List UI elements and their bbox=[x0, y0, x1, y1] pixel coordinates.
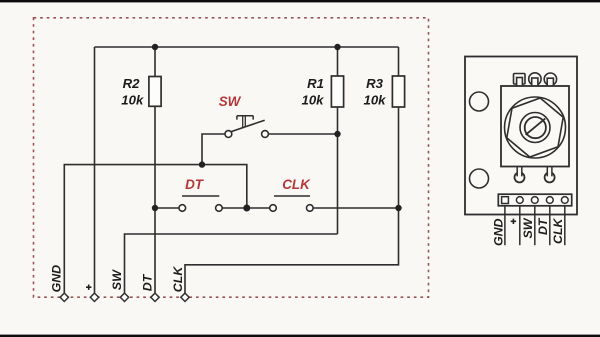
pushbutton SW bbox=[225, 116, 268, 138]
svg-text:10k: 10k bbox=[363, 93, 386, 108]
svg-text:10k: 10k bbox=[121, 93, 144, 108]
svg-text:R3: R3 bbox=[366, 76, 384, 91]
label R1 value bbox=[301, 76, 324, 108]
wire R1 bottom column bbox=[337, 107, 339, 234]
wire R2 top stub bbox=[154, 47, 156, 77]
module wire SW bbox=[534, 206, 536, 245]
svg-text:GND: GND bbox=[50, 265, 64, 293]
encoder shaft slot line bbox=[526, 119, 546, 135]
module wire + bbox=[519, 206, 521, 245]
encoder pin C (top circle) bbox=[544, 73, 556, 87]
wire row segment B bbox=[222, 207, 269, 209]
svg-text:SW: SW bbox=[521, 217, 535, 238]
module mounting hole bottom bbox=[470, 169, 489, 188]
encoder pin A (top square) bbox=[514, 74, 526, 87]
wire row segment A bbox=[155, 207, 179, 209]
wire R1 top stub bbox=[337, 47, 339, 76]
module boundary KY-040 (red dashed) bbox=[34, 18, 429, 297]
wire row segment C bbox=[313, 207, 398, 209]
module mounting hole top bbox=[470, 92, 489, 111]
svg-text:DT: DT bbox=[141, 273, 155, 291]
terminal CLK bbox=[181, 293, 189, 301]
wire R3 to CLK terminal bbox=[185, 208, 399, 293]
module wire CLK bbox=[564, 206, 566, 245]
label R2 value bbox=[121, 76, 144, 108]
module pin label + bbox=[511, 219, 516, 224]
encoder outer circle bbox=[505, 97, 566, 158]
pin label + (left) bbox=[86, 285, 91, 290]
encoder nut hexagon bbox=[504, 93, 566, 161]
module pin header bbox=[498, 194, 571, 206]
junction row common bbox=[243, 205, 250, 212]
junction row DT left bbox=[152, 205, 158, 211]
svg-text:10k: 10k bbox=[301, 93, 324, 108]
encoder shaft circle bbox=[520, 113, 550, 143]
resistor R2 bbox=[149, 77, 161, 107]
junction row R3 bbox=[395, 205, 401, 211]
label R3 value bbox=[363, 76, 386, 108]
encoder bottom tab left bbox=[515, 167, 525, 183]
terminal DT bbox=[151, 293, 159, 301]
svg-text:CLK: CLK bbox=[282, 177, 311, 192]
wire R3 top stub bbox=[398, 47, 400, 76]
header pad + bbox=[516, 197, 523, 204]
svg-text:CLK: CLK bbox=[551, 217, 565, 244]
rotary contact CLK (circles and bar) bbox=[270, 196, 313, 211]
encoder shaft slot circle bbox=[525, 117, 546, 138]
KY-040 module PCB bbox=[465, 57, 577, 215]
wire R1 to SW terminal bbox=[125, 234, 338, 293]
header pad DT bbox=[546, 197, 553, 204]
header pad GND (square) bbox=[502, 197, 509, 204]
encoder bottom tab right bbox=[545, 167, 555, 183]
wire DT terminal column bbox=[154, 208, 156, 293]
svg-text:SW: SW bbox=[219, 94, 242, 109]
junction SW right / R1 bbox=[334, 131, 340, 137]
wire + column bbox=[94, 47, 96, 293]
rotary contact DT (circles and bar) bbox=[179, 196, 222, 211]
svg-text:R2: R2 bbox=[123, 76, 141, 91]
terminal SW bbox=[120, 293, 128, 301]
svg-text:SW: SW bbox=[110, 269, 124, 290]
resistor R3 bbox=[392, 76, 404, 107]
wire R3 bottom to row bbox=[398, 107, 400, 208]
wire GND net bbox=[64, 165, 247, 293]
junction R2 top bbox=[152, 44, 158, 50]
wire R2 bottom to row bbox=[154, 106, 156, 208]
header pad CLK bbox=[561, 197, 568, 204]
svg-text:CLK: CLK bbox=[171, 266, 185, 293]
terminal GND bbox=[60, 293, 68, 301]
junction R1 top bbox=[334, 44, 340, 50]
terminal + bbox=[90, 293, 98, 301]
svg-text:GND: GND bbox=[491, 218, 505, 246]
module wire GND bbox=[504, 206, 506, 245]
svg-text:R1: R1 bbox=[307, 76, 324, 91]
junction SW left / GND bbox=[199, 161, 205, 167]
wire SW switch left bbox=[202, 134, 225, 165]
rotary encoder body bbox=[501, 86, 569, 167]
header pad SW bbox=[531, 197, 538, 204]
wire top supply rail bbox=[95, 46, 399, 48]
resistor R1 bbox=[331, 76, 343, 107]
module wire DT bbox=[549, 206, 551, 245]
encoder pin B (top circle) bbox=[529, 73, 541, 87]
wire SW switch right bbox=[269, 133, 338, 135]
svg-text:DT: DT bbox=[185, 177, 205, 192]
svg-text:DT: DT bbox=[536, 217, 550, 235]
